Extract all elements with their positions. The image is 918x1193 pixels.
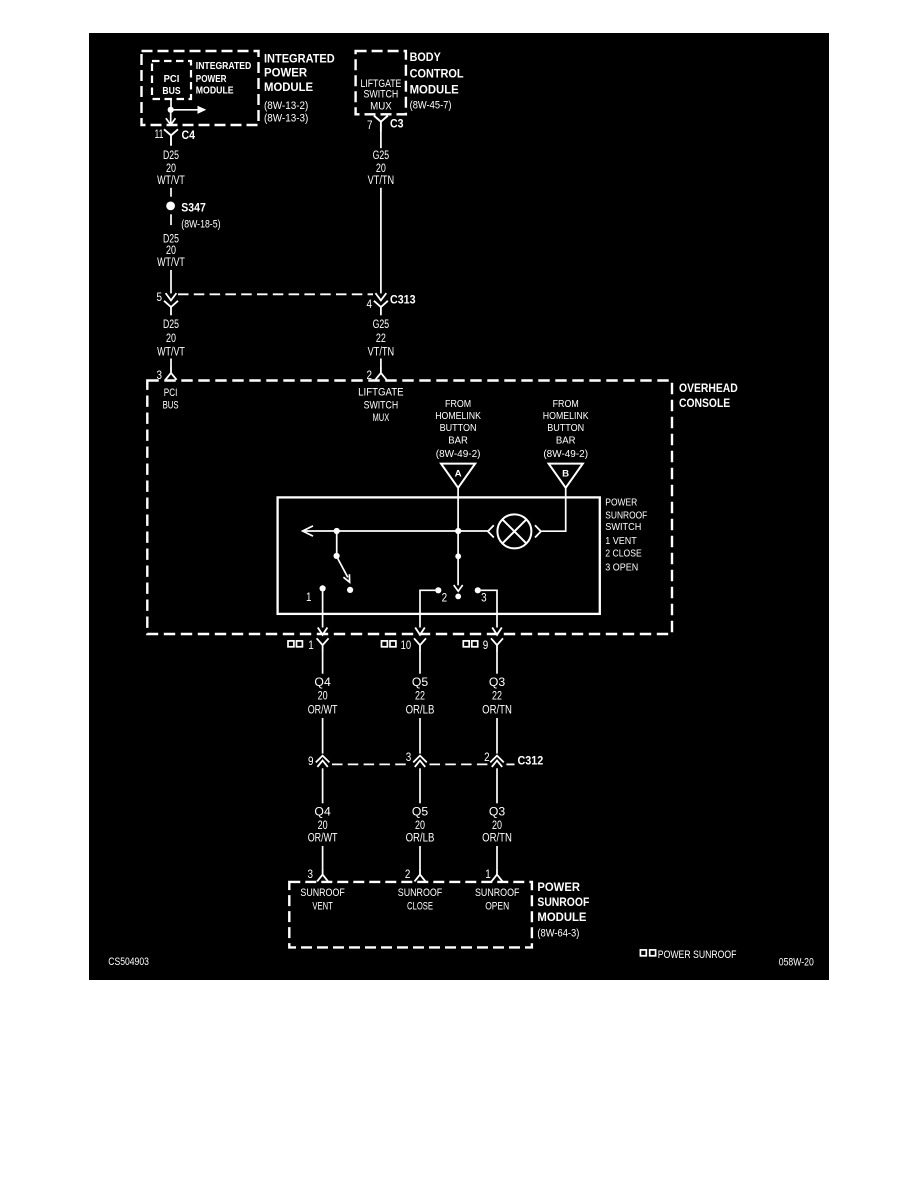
svg-text:VT/TN: VT/TN <box>368 346 395 358</box>
svg-text:FROM: FROM <box>445 398 471 410</box>
wire 2 to module pin 2 <box>419 846 421 868</box>
svg-text:OR/TN: OR/TN <box>482 705 512 717</box>
connector C313 pin 4 symbol <box>374 293 388 315</box>
svg-text:10: 10 <box>401 640 412 652</box>
switch contact 3 dot <box>475 587 481 593</box>
svg-text:B: B <box>562 469 569 480</box>
wire below splice <box>170 214 172 225</box>
svg-text:20: 20 <box>318 690 328 702</box>
off-page triangle A <box>441 464 475 488</box>
svg-text:Q4: Q4 <box>314 806 331 818</box>
wire cup3 to label <box>496 652 498 674</box>
svg-text:G25: G25 <box>373 150 390 162</box>
wire 2 to C312 <box>419 718 421 754</box>
console exit wire 1 <box>322 614 324 628</box>
diagram black background <box>89 33 829 980</box>
console pin 2 symbol <box>375 367 386 380</box>
svg-text:SWITCH: SWITCH <box>364 400 399 412</box>
svg-text:Q4: Q4 <box>314 677 331 689</box>
svg-text:3: 3 <box>308 869 314 881</box>
illumination lamp <box>497 514 531 548</box>
PCI bus arrow to right <box>173 106 206 114</box>
svg-text:20: 20 <box>415 820 425 832</box>
svg-text:C312: C312 <box>518 754 544 768</box>
node PCI BUS label <box>163 387 179 412</box>
svg-text:D25: D25 <box>163 150 179 162</box>
svg-text:3: 3 <box>481 593 487 605</box>
svg-text:Q5: Q5 <box>412 677 428 689</box>
svg-text:POWER: POWER <box>605 497 637 509</box>
wire label Q3 22 OR/TN (upper) <box>482 677 512 717</box>
node FROM HOMELINK BUTTON BAR B label <box>543 398 589 460</box>
svg-text:22: 22 <box>415 690 425 702</box>
svg-text:VENT: VENT <box>312 901 333 913</box>
svg-text:G25: G25 <box>373 319 390 331</box>
svg-text:SUNROOF: SUNROOF <box>398 887 443 899</box>
svg-text:20: 20 <box>492 820 502 832</box>
wire label Q4 20 OR/WT (lower) <box>308 806 338 844</box>
switch common rail wire with left arrow <box>303 526 488 536</box>
svg-text:MODULE: MODULE <box>410 82 459 96</box>
body control module title <box>410 50 464 111</box>
svg-text:(8W-49-2): (8W-49-2) <box>436 448 481 460</box>
integrated power module U1 box <box>142 51 259 125</box>
console exit wire 2 <box>419 614 421 628</box>
svg-text:MODULE: MODULE <box>537 910 586 924</box>
switch arm contact dot <box>347 587 353 593</box>
svg-text:20: 20 <box>376 163 386 175</box>
option squares pin 9 <box>463 641 477 647</box>
wire from A down to switch feed <box>457 488 459 586</box>
connector C4 symbol <box>164 129 178 146</box>
lamp socket brackets <box>488 525 541 537</box>
C312 harness dashed link a <box>332 763 411 765</box>
svg-text:20: 20 <box>166 245 176 257</box>
switch contact 1 dot <box>320 585 326 591</box>
svg-text:2: 2 <box>442 593 448 605</box>
svg-text:POWER SUNROOF: POWER SUNROOF <box>658 949 737 961</box>
console exit cup 1 <box>317 638 329 652</box>
wire 1 below C312 <box>322 768 324 803</box>
svg-text:1: 1 <box>308 640 314 652</box>
svg-text:(8W-13-2): (8W-13-2) <box>264 100 308 112</box>
svg-text:2: 2 <box>484 752 490 764</box>
console exit arrow 1 <box>318 628 328 635</box>
console exit arrow 3 <box>492 628 502 635</box>
wire label Q3 20 OR/TN (lower) <box>482 806 512 844</box>
wire to console pin 2 <box>380 359 382 368</box>
wire to console pin 3 <box>170 359 172 368</box>
wire label Q5 22 OR/LB (upper) <box>406 677 435 717</box>
svg-text:058W-20: 058W-20 <box>779 956 814 968</box>
console exit wire 3 <box>496 614 498 628</box>
svg-text:SUNROOF: SUNROOF <box>537 895 589 909</box>
svg-text:D25: D25 <box>163 233 179 245</box>
svg-text:POWER: POWER <box>264 66 307 80</box>
svg-text:BUS: BUS <box>163 400 179 412</box>
svg-text:4: 4 <box>367 299 373 311</box>
svg-text:CLOSE: CLOSE <box>407 901 433 913</box>
svg-text:SWITCH: SWITCH <box>364 89 399 101</box>
svg-text:BAR: BAR <box>448 435 468 447</box>
switch arm with arrow <box>338 559 350 583</box>
svg-text:LIFTGATE: LIFTGATE <box>358 387 404 399</box>
console pin 3 symbol <box>165 367 176 380</box>
wire 2 below C312 <box>419 768 421 803</box>
wire label Q5 20 OR/LB (lower) <box>406 806 435 844</box>
wire PCI BUS box to junction <box>170 99 172 107</box>
svg-text:11: 11 <box>155 129 164 141</box>
PCI BUS sub-box label <box>162 74 181 97</box>
svg-text:C4: C4 <box>182 128 196 142</box>
module pin 1 symbol <box>492 868 503 881</box>
svg-text:Q3: Q3 <box>489 806 505 818</box>
switch contact 2 dot <box>435 587 441 593</box>
svg-text:PCI: PCI <box>164 74 180 85</box>
switch arm riser wire <box>336 531 338 553</box>
svg-text:MODULE: MODULE <box>196 86 234 97</box>
junction dot in IPM <box>168 107 174 113</box>
body control module inner label <box>361 78 402 113</box>
wire from B down and left to lamp <box>541 488 565 531</box>
svg-text:CONSOLE: CONSOLE <box>679 396 730 410</box>
node SUNROOF CLOSE label <box>398 887 443 913</box>
svg-text:20: 20 <box>166 163 176 175</box>
svg-text:MUX: MUX <box>373 412 390 424</box>
svg-text:INTEGRATED: INTEGRATED <box>196 61 252 72</box>
svg-text:PCI: PCI <box>164 387 178 399</box>
wire junction down with arrow at border <box>166 113 176 125</box>
svg-text:2: 2 <box>405 869 411 881</box>
console exit cup 2 <box>414 638 426 652</box>
splice S347 label <box>181 200 220 230</box>
option squares pin 10 <box>382 641 396 647</box>
wire label G25 20 VT/TN <box>368 150 395 187</box>
svg-text:BUTTON: BUTTON <box>440 422 477 434</box>
wire cup2 to label <box>419 652 421 674</box>
svg-text:(8W-49-2): (8W-49-2) <box>543 448 588 460</box>
svg-text:OR/TN: OR/TN <box>482 833 512 845</box>
wire contact 1 down <box>322 591 324 614</box>
wire 1 to module pin 3 <box>322 846 324 868</box>
svg-text:FROM: FROM <box>553 398 579 410</box>
svg-text:1: 1 <box>306 592 312 604</box>
switch feed upper dot <box>455 553 461 559</box>
svg-text:7: 7 <box>367 120 373 132</box>
switch feed lower dot <box>455 594 461 600</box>
console exit arrow 2 <box>415 628 425 635</box>
switch feed arrowhead <box>454 585 463 591</box>
overhead console box <box>147 381 672 635</box>
svg-text:SUNROOF: SUNROOF <box>605 509 647 521</box>
C312 harness dashed link c <box>506 763 514 765</box>
svg-text:CONTROL: CONTROL <box>410 66 464 80</box>
svg-text:(8W-18-5): (8W-18-5) <box>181 219 220 231</box>
wire 3 to C312 <box>496 718 498 754</box>
svg-text:VT/TN: VT/TN <box>368 175 395 187</box>
svg-text:Q5: Q5 <box>412 806 428 818</box>
power sunroof module box <box>289 882 532 948</box>
node LIFTGATE SWITCH MUX label <box>358 387 404 424</box>
svg-text:CS504903: CS504903 <box>108 956 149 968</box>
svg-text:BUTTON: BUTTON <box>547 422 584 434</box>
connector C312 pin 3 symbol <box>413 756 427 767</box>
svg-text:MODULE: MODULE <box>264 80 313 94</box>
svg-text:2 CLOSE: 2 CLOSE <box>605 547 642 559</box>
svg-text:(8W-45-7): (8W-45-7) <box>410 99 452 111</box>
C313 harness dashed link <box>178 293 373 295</box>
wire to splice S347 <box>170 188 172 197</box>
power sunroof switch title <box>605 497 647 574</box>
svg-text:OPEN: OPEN <box>485 901 509 913</box>
svg-text:OR/WT: OR/WT <box>308 705 338 717</box>
svg-text:POWER: POWER <box>196 74 227 85</box>
wire contact 3 down <box>481 590 497 614</box>
wire 3 to module pin 1 <box>496 846 498 868</box>
legend option squares <box>640 950 655 956</box>
wire 1 to C312 <box>322 718 324 754</box>
wire label Q4 20 OR/WT (upper) <box>308 677 338 717</box>
wire label G25 22 VT/TN <box>368 319 395 358</box>
svg-text:1 VENT: 1 VENT <box>605 535 637 547</box>
junction dot rail/arm <box>334 528 340 534</box>
svg-text:SUNROOF: SUNROOF <box>475 887 520 899</box>
connector C3 symbol <box>374 116 388 132</box>
wire cup1 to label <box>322 652 324 674</box>
connector C312 pin 9 symbol <box>316 756 330 767</box>
wire label D25 20 WT/VT (below C313) <box>157 319 185 358</box>
PCI BUS sub-box <box>152 61 191 99</box>
svg-text:9: 9 <box>483 640 489 652</box>
svg-text:9: 9 <box>308 756 314 768</box>
svg-text:22: 22 <box>492 690 502 702</box>
module pin 3 symbol <box>317 868 328 881</box>
integrated power module title <box>264 52 335 125</box>
svg-text:INTEGRATED: INTEGRATED <box>264 52 335 66</box>
svg-text:BAR: BAR <box>556 435 576 447</box>
svg-text:POWER: POWER <box>537 880 580 894</box>
connector C312 pin 2 symbol <box>490 756 504 767</box>
connector C313 pin 5 symbol <box>164 293 178 315</box>
power sunroof switch S1 box <box>278 497 600 614</box>
svg-text:1: 1 <box>485 869 491 881</box>
svg-text:(8W-64-3): (8W-64-3) <box>537 927 579 939</box>
svg-text:20: 20 <box>318 820 328 832</box>
svg-text:22: 22 <box>376 333 386 345</box>
wire label D25 20 WT/VT (second) <box>157 233 185 269</box>
svg-text:HOMELINK: HOMELINK <box>543 410 589 422</box>
svg-text:MUX: MUX <box>370 101 392 113</box>
node FROM HOMELINK BUTTON BAR A label <box>435 398 481 460</box>
body control module box <box>356 51 406 114</box>
svg-text:OR/LB: OR/LB <box>406 705 435 717</box>
svg-text:WT/VT: WT/VT <box>157 346 185 358</box>
svg-text:OVERHEAD: OVERHEAD <box>679 381 738 395</box>
wire 3 below C312 <box>496 768 498 803</box>
node SUNROOF OPEN label <box>475 887 520 913</box>
splice S347 dot <box>166 202 175 211</box>
svg-text:OR/LB: OR/LB <box>406 833 435 845</box>
option squares pin 1 <box>288 641 302 647</box>
svg-text:5: 5 <box>157 292 163 304</box>
off-page triangle B <box>549 464 583 488</box>
power sunroof module title <box>537 880 589 939</box>
svg-text:A: A <box>455 469 462 480</box>
wire C3 to label G25 <box>380 132 382 149</box>
svg-text:3 OPEN: 3 OPEN <box>605 562 638 574</box>
svg-text:HOMELINK: HOMELINK <box>435 410 481 422</box>
svg-text:(8W-13-3): (8W-13-3) <box>264 113 308 125</box>
console exit cup 3 <box>491 638 503 652</box>
junction dot rail/feed <box>455 528 461 534</box>
svg-text:WT/VT: WT/VT <box>157 175 185 187</box>
wire label D25 20 WT/VT (upper) <box>157 150 185 187</box>
svg-text:C313: C313 <box>390 293 416 307</box>
svg-text:C3: C3 <box>390 117 404 131</box>
integrated power module inner label <box>196 61 252 97</box>
C312 harness dashed link b <box>430 763 489 765</box>
wire to connector C313 pin 5 <box>170 270 172 293</box>
svg-text:S347: S347 <box>181 200 206 214</box>
svg-text:OR/WT: OR/WT <box>308 833 338 845</box>
svg-text:3: 3 <box>406 752 412 764</box>
svg-text:Q3: Q3 <box>489 677 505 689</box>
long wire to C313 pin 4 <box>380 188 382 294</box>
svg-text:20: 20 <box>166 333 176 345</box>
svg-text:WT/VT: WT/VT <box>157 257 185 269</box>
svg-text:SUNROOF: SUNROOF <box>300 887 345 899</box>
node SUNROOF VENT label <box>300 887 345 913</box>
svg-text:BUS: BUS <box>162 86 181 97</box>
overhead console title <box>679 381 738 410</box>
svg-text:D25: D25 <box>163 319 179 331</box>
wire contact 2 down <box>420 590 435 614</box>
module pin 2 symbol <box>415 868 426 881</box>
svg-text:BODY: BODY <box>410 50 441 64</box>
svg-text:SWITCH: SWITCH <box>605 521 641 533</box>
switch arm pivot dot <box>334 553 340 559</box>
